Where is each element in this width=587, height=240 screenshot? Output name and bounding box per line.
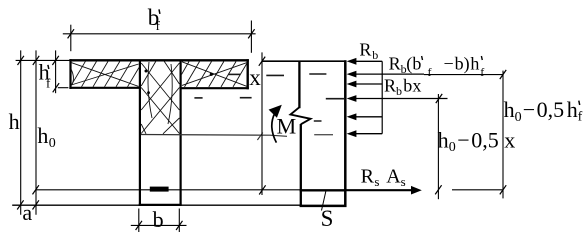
extension line b right [178,209,180,233]
dashes inside elevation [309,74,345,99]
node x-level dashes at y98 [194,97,251,99]
label Rs As [361,165,406,189]
elevation top edge [262,60,347,62]
label h0 [37,123,55,151]
svg-text:b: b [372,48,378,62]
wire rebar level line [36,189,300,191]
rebar bar [150,187,169,192]
elevation left edge / dimension line [261,52,263,195]
svg-text:s: s [401,174,406,189]
svg-text:s: s [374,174,379,189]
elevation right edge [344,60,347,207]
flange bottom right overhang [181,87,249,89]
svg-text:b: b [412,53,421,73]
moment M arc [272,114,277,143]
svg-text:b: b [153,207,164,232]
svg-text:h: h [470,53,479,73]
svg-text:(: ( [406,53,412,74]
web right edge [180,60,182,204]
dimension line hf' [55,50,57,93]
svg-text:x: x [412,76,421,96]
label Rb bx [384,76,421,99]
svg-text:−: − [523,97,535,122]
svg-text:0: 0 [49,136,56,151]
dimension line h0 [35,50,37,214]
extension line b left [138,209,140,233]
svg-text:R: R [359,39,371,59]
svg-text:f: f [46,76,51,91]
svg-text:S: S [321,206,334,231]
svg-text:R: R [361,165,375,187]
crack zigzag [291,107,311,124]
svg-text:h: h [567,97,578,122]
flange bottom left overhang [69,87,140,89]
flange right edge [246,59,248,89]
crack line lower [300,124,302,207]
extension dash hf' bottom [58,87,69,89]
label h0-0.5x [438,127,516,155]
svg-text:0,5: 0,5 [471,127,499,152]
svg-text:−: − [444,53,454,73]
hatch dots [145,70,213,95]
S leader line [322,191,326,211]
force RsAs arrow [347,189,413,191]
web bottom thick segment [139,204,182,206]
dimension line h0-0.5hf' [502,71,504,199]
svg-text:x: x [504,127,515,152]
svg-text:−: − [457,127,469,152]
svg-text:h: h [504,97,515,122]
svg-text:M: M [277,114,297,139]
svg-text:R: R [384,76,396,96]
label Rb(bf'-b)hf' [389,53,485,79]
dimension extension top-left [16,59,70,61]
svg-text:b: b [455,53,464,73]
svg-text:): ) [464,53,470,74]
hatch left flange overhang [71,61,139,87]
hatch right flange overhang [182,62,248,87]
wire bottom extension line [12,204,300,206]
dimension line h [20,50,22,214]
dimension line h0-0.5x [437,94,439,199]
tick marks [17,29,506,230]
label h0-0.5hf' [504,97,583,125]
svg-text:R: R [389,53,401,73]
svg-text:0: 0 [449,140,456,155]
svg-text:f: f [578,110,583,125]
svg-text:a: a [22,200,32,225]
dimension line b bottom [131,224,187,226]
svg-text:f: f [156,18,161,33]
elevation rebar level thick line [300,189,347,191]
svg-text:0,5: 0,5 [537,97,565,122]
hatch web column [141,61,179,134]
web left edge [139,60,141,204]
node x-level dashes at y74 [228,74,284,75]
moment M arrowhead [269,105,282,118]
svg-text:f: f [480,65,484,79]
label Rb top [359,39,378,62]
stress block envelope [381,61,383,133]
crack line upper [298,61,300,109]
dimension line bf' top [63,33,256,35]
svg-text:x: x [249,65,261,90]
svg-text:b: b [403,76,412,96]
wire extension row2 to dim [424,74,503,76]
force arrow Rb row1 [354,61,448,133]
svg-text:f: f [428,65,432,79]
flange left edge [69,59,71,89]
svg-text:0: 0 [515,110,522,125]
label bf' top [148,5,161,33]
svg-text:A: A [386,165,401,187]
svg-text:b: b [396,84,402,98]
wire connector at rebar level [452,189,503,191]
extension line bf' right [250,21,252,53]
svg-text:h: h [37,123,48,148]
svg-text:h: h [9,109,20,134]
elevation bottom edge [300,205,347,208]
flange top edge [69,59,248,61]
svg-text:h: h [438,127,449,152]
wire x-level line across web [141,135,287,137]
label hf' left [39,60,51,91]
extension line bf' left [70,25,72,52]
